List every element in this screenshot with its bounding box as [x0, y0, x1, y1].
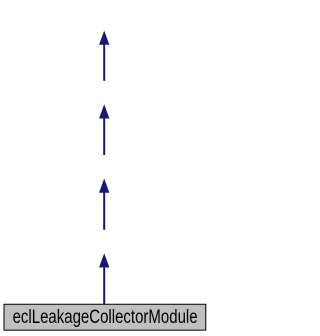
svg-text:eclLeakageCollectorModule: eclLeakageCollectorModule — [13, 306, 198, 328]
inheritance arrow 1 (topmost) — [99, 31, 109, 81]
inheritance arrow 3 — [99, 179, 109, 230]
inheritance arrow 4 (into class box) — [99, 253, 109, 304]
class node box eclLeakageCollectorModule — [4, 304, 206, 330]
inheritance arrow 2 — [99, 104, 109, 155]
